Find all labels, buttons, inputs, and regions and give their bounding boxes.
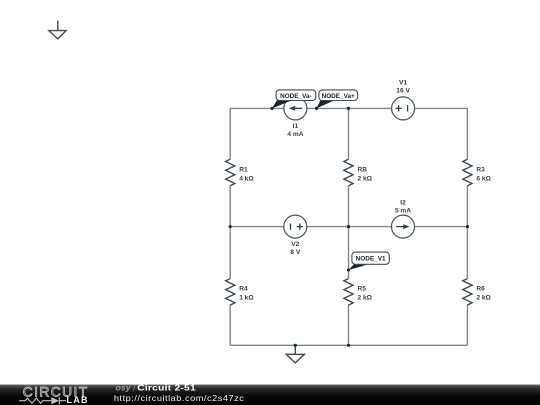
svg-text:2 kΩ: 2 kΩ xyxy=(476,294,491,301)
svg-text:R3: R3 xyxy=(476,167,485,174)
node flag NODE_Va- xyxy=(272,90,316,109)
CircuitLab logo wordmark xyxy=(19,385,89,405)
resistor R1 label xyxy=(239,167,254,183)
ground (top-left reference) xyxy=(49,21,66,39)
svg-text:LAB: LAB xyxy=(66,395,88,405)
ground (bottom) xyxy=(286,345,304,363)
svg-text:V2: V2 xyxy=(291,241,299,248)
svg-text:R5: R5 xyxy=(358,286,367,293)
resistor RB label xyxy=(358,167,373,183)
logo diode xyxy=(51,397,59,404)
svg-text:2 kΩ: 2 kΩ xyxy=(358,175,373,182)
svg-text:4 kΩ: 4 kΩ xyxy=(239,175,254,182)
resistor R4 label xyxy=(239,286,254,302)
resistor RB body xyxy=(344,159,353,185)
wire middle branch segments xyxy=(348,108,350,345)
svg-text:6 kΩ: 6 kΩ xyxy=(476,175,491,182)
voltage source V2 xyxy=(284,215,307,256)
resistor R6 label xyxy=(476,286,491,302)
resistor R5 label xyxy=(358,286,373,302)
svg-text:osy /: osy / xyxy=(116,384,137,392)
footer caption line 1 xyxy=(116,383,196,393)
svg-text:http://circuitlab.com/c2s47zc: http://circuitlab.com/c2s47zc xyxy=(114,394,245,403)
svg-text:1 kΩ: 1 kΩ xyxy=(239,294,254,301)
svg-text:I2: I2 xyxy=(400,200,406,207)
svg-text:R1: R1 xyxy=(239,167,248,174)
node flag NODE_V1 xyxy=(349,252,390,270)
resistor R3 body xyxy=(463,159,472,185)
svg-text:R4: R4 xyxy=(239,286,248,293)
resistor R5 body xyxy=(344,279,353,305)
wire top horizontal xyxy=(230,107,467,109)
resistor R6 body xyxy=(463,279,472,305)
junction node dots xyxy=(229,107,469,347)
svg-text:RB: RB xyxy=(358,167,368,174)
resistor R3 label xyxy=(476,167,491,183)
svg-text:NODE_V1: NODE_V1 xyxy=(356,256,386,263)
wire bottom horizontal xyxy=(230,344,467,346)
svg-text:5 mA: 5 mA xyxy=(395,208,411,215)
svg-text:16 V: 16 V xyxy=(396,88,410,95)
logo resistor squiggle xyxy=(19,398,51,403)
resistor R1 body xyxy=(226,159,235,185)
svg-text:Circuit 2-51: Circuit 2-51 xyxy=(137,384,196,392)
svg-text:NODE_Va+: NODE_Va+ xyxy=(322,93,355,100)
svg-text:V1: V1 xyxy=(399,79,407,86)
resistor R4 body xyxy=(226,279,235,305)
wire left branch segments xyxy=(229,108,231,345)
svg-text:R6: R6 xyxy=(476,286,485,293)
footer bar xyxy=(0,384,540,405)
footer caption line 2 (url) xyxy=(114,394,245,403)
current source I1 xyxy=(284,97,307,138)
svg-text:4 mA: 4 mA xyxy=(287,131,303,138)
svg-text:8 V: 8 V xyxy=(290,249,300,256)
svg-text:I1: I1 xyxy=(293,123,299,130)
svg-text:2 kΩ: 2 kΩ xyxy=(358,294,373,301)
node flag NODE_Va+ xyxy=(317,90,358,109)
svg-text:NODE_Va-: NODE_Va- xyxy=(280,93,312,100)
wire middle horizontal xyxy=(230,226,467,228)
wire right branch segments xyxy=(466,108,468,345)
voltage source V1 xyxy=(392,79,415,120)
current source I2 xyxy=(392,200,415,239)
